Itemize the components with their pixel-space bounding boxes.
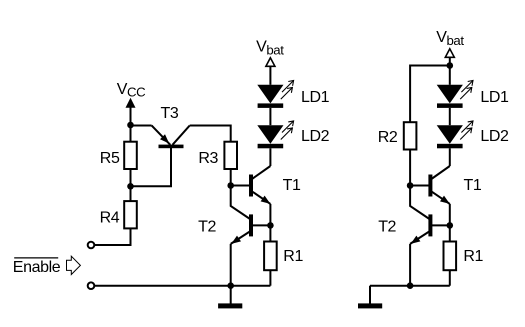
svg-text:T2: T2 — [378, 219, 396, 236]
transistor T2 base wire right — [431, 224, 449, 226]
terminal bottom — [88, 282, 95, 289]
node ground junction right — [407, 282, 414, 289]
resistor R5 — [124, 142, 137, 169]
LED LD1 light arrows right — [461, 81, 473, 93]
svg-text:VCC: VCC — [117, 81, 146, 100]
node Vbat junction right — [447, 62, 454, 69]
wire T3 collector to R3 — [190, 126, 231, 142]
wire node B to T1 base — [231, 185, 250, 187]
wire node B2 to T1 base — [410, 185, 429, 187]
wire Vbat to LD1 right — [449, 66, 451, 85]
wire bottom rail — [94, 285, 270, 287]
wire R1 to bottom rail — [269, 270, 271, 286]
wire T1 emitter to node E — [269, 204, 271, 226]
transistor T2 emitter — [231, 231, 250, 244]
svg-text:R2: R2 — [378, 129, 398, 146]
svg-text:R4: R4 — [100, 210, 120, 227]
svg-text:LD2: LD2 — [301, 128, 330, 145]
wire LD1 to LD2 — [269, 108, 271, 125]
resistor R1 — [264, 242, 277, 271]
terminal Enable top — [88, 242, 95, 249]
svg-text:Vbat: Vbat — [436, 29, 464, 48]
svg-text:LD1: LD1 — [480, 89, 509, 106]
wire node E to R1 right — [449, 225, 451, 241]
svg-text:T1: T1 — [283, 177, 301, 194]
wire node E to R1 — [269, 225, 271, 241]
power VCC arrow — [126, 98, 136, 108]
wire T2 emitter to ground rail — [230, 244, 232, 286]
LED LD2 light arrows — [282, 121, 294, 133]
LED LD1 light arrows — [282, 81, 294, 93]
transistor T1 bar right — [428, 175, 432, 197]
transistor T2 collector — [231, 186, 250, 220]
wire Vbat junction to R2 — [410, 66, 450, 123]
wire LD2 to T1 collector — [269, 148, 271, 166]
LED LD2 — [257, 125, 283, 144]
resistor R4 — [124, 201, 137, 228]
svg-text:R1: R1 — [463, 248, 483, 265]
LED LD2 light arrows right — [461, 121, 473, 133]
svg-text:Enable: Enable — [13, 259, 61, 276]
wire VCC junction to T3 emitter — [131, 125, 152, 127]
transistor T1 emitter right — [431, 191, 449, 204]
wire R3 to node B — [230, 169, 232, 186]
node C junction — [127, 183, 134, 190]
ground right — [369, 286, 371, 304]
resistor R3 — [224, 142, 237, 169]
node ground junction left — [227, 282, 234, 289]
transistor T3 collector — [173, 126, 190, 145]
LED LD1 — [257, 85, 283, 104]
transistor T2 bar right — [428, 214, 432, 236]
transistor T2 bar — [249, 214, 253, 236]
wire T2 emitter to ground rail right — [409, 244, 411, 286]
resistor R2 — [404, 122, 417, 149]
transistor T3 emitter — [152, 126, 171, 145]
svg-text:R3: R3 — [198, 150, 218, 167]
resistor R1 right — [444, 242, 457, 271]
power Vbat arrow right — [445, 49, 454, 58]
node E junction — [267, 222, 274, 229]
wire VCC to R5 — [130, 125, 132, 142]
Enable input open arrow — [67, 256, 81, 274]
svg-text:T2: T2 — [198, 219, 216, 236]
LED LD1 right — [437, 85, 463, 104]
svg-text:T3: T3 — [161, 105, 179, 122]
transistor T1 emitter — [252, 191, 270, 204]
node B junction — [227, 182, 234, 189]
wire LD1 to LD2 right — [449, 108, 451, 125]
transistor T1 collector — [252, 166, 270, 179]
transistor T3 base bar — [159, 145, 184, 149]
wire node C to R4 — [130, 186, 132, 201]
svg-text:R1: R1 — [283, 248, 303, 265]
svg-text:Vbat: Vbat — [256, 39, 284, 58]
ground left — [230, 286, 232, 304]
transistor T3 base wire — [131, 148, 172, 186]
svg-text:LD1: LD1 — [301, 89, 330, 106]
node E junction right — [447, 222, 454, 229]
svg-text:T1: T1 — [464, 177, 482, 194]
transistor T1 bar — [249, 175, 253, 197]
svg-text:R5: R5 — [100, 150, 120, 167]
wire LD2 to T1 collector right — [449, 148, 451, 166]
transistor T2 collector right — [410, 186, 429, 220]
wire R4 to Enable terminal — [94, 228, 130, 245]
wire R2 to node B2 — [409, 150, 411, 186]
wire ground rail right — [370, 285, 450, 287]
svg-text:LD2: LD2 — [480, 128, 509, 145]
node VCC junction — [127, 122, 134, 129]
wire R5 to node C — [130, 169, 132, 187]
transistor T2 emitter right — [410, 231, 429, 244]
LED LD2 right — [437, 125, 463, 144]
transistor T2 base wire — [252, 224, 270, 226]
transistor T1 collector right — [431, 166, 449, 179]
node B2 junction — [407, 182, 414, 189]
power Vbat arrow left — [266, 58, 275, 67]
label Enable overline — [14, 257, 58, 259]
wire R1 to ground rail right — [449, 270, 451, 286]
wire T1 emitter to node E right — [449, 204, 451, 226]
